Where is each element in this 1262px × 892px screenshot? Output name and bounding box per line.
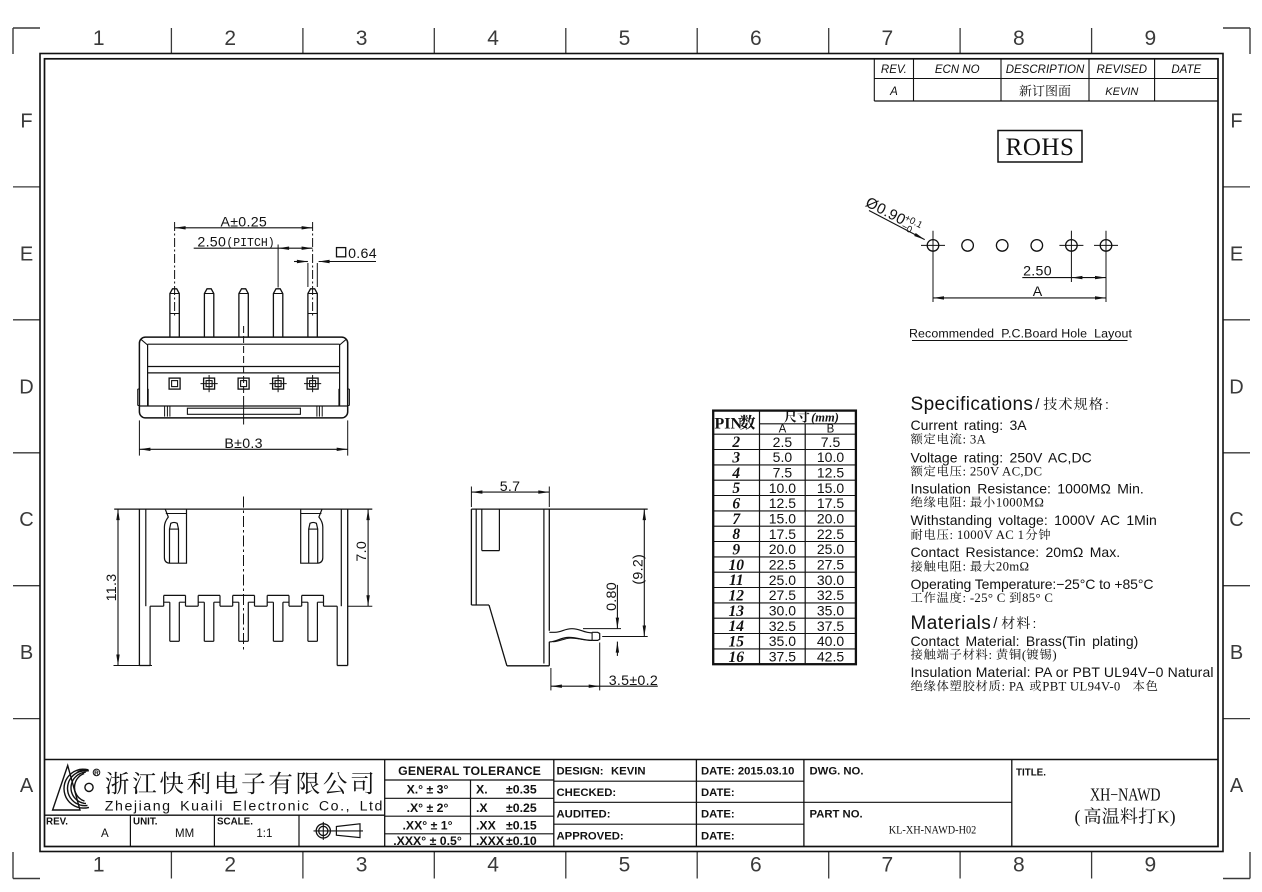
svg-text:1: 1 (93, 27, 105, 50)
svg-text:DATE: DATE (1171, 64, 1201, 76)
svg-text:±0.25: ±0.25 (506, 801, 537, 815)
svg-text:37.5: 37.5 (769, 649, 796, 665)
front view side tabs (138, 388, 140, 390)
svg-text:(mm): (mm) (811, 410, 839, 424)
dwg no / part no (804, 801, 1012, 803)
svg-text:7: 7 (882, 854, 894, 877)
svg-text:Withstanding voltage: 1000V A: Withstanding voltage: 1000V AC 1Min (911, 512, 1157, 528)
svg-text:SCALE.: SCALE. (217, 817, 253, 828)
front view bottom strip details (187, 408, 300, 414)
front view pins (170, 289, 179, 337)
svg-text::: : (963, 560, 967, 574)
svg-text:: 1000V AC 1: : 1000V AC 1 (950, 528, 1025, 542)
svg-text:22.5: 22.5 (817, 526, 844, 542)
title block grid (45, 759, 1219, 761)
svg-text:.X: .X (476, 801, 488, 815)
front view pin cavities (squares) (169, 378, 180, 389)
svg-text:22.5: 22.5 (769, 557, 796, 573)
bottom view left leg (149, 606, 151, 665)
svg-text:32.5: 32.5 (769, 618, 796, 634)
svg-text:.XX° ± 1°: .XX° ± 1° (402, 819, 452, 833)
svg-text:CHECKED:: CHECKED: (557, 787, 617, 799)
svg-text:±0.10: ±0.10 (506, 834, 537, 848)
svg-text:8: 8 (1013, 27, 1025, 50)
svg-text:: 3A: : 3A (963, 432, 987, 446)
svg-text:Materials: Materials (911, 613, 992, 634)
svg-text:25.0: 25.0 (769, 572, 796, 588)
svg-text:Voltage rating: 250V AC,DC: Voltage rating: 250V AC,DC (911, 450, 1092, 466)
bottom view right leg (336, 606, 338, 665)
svg-text:A: A (889, 86, 898, 98)
svg-text:K: K (1157, 808, 1170, 827)
svg-text:15.0: 15.0 (769, 511, 796, 527)
svg-text:10.0: 10.0 (817, 449, 844, 465)
svg-text:AUDITED:: AUDITED: (557, 809, 611, 821)
centerline pin 5 (312, 222, 314, 318)
bottom view slots (164, 509, 186, 563)
svg-text:Specifications: Specifications (911, 394, 1034, 415)
bottom view centerline (243, 497, 245, 653)
company logo (53, 766, 80, 811)
svg-text:Insulation Material: PA or PBT: Insulation Material: PA or PBT UL94V−0 N… (911, 664, 1214, 680)
svg-text:(: ( (1022, 648, 1027, 662)
svg-text:DWG. NO.: DWG. NO. (810, 766, 864, 778)
svg-text:D: D (19, 376, 33, 398)
projection symbol (316, 824, 330, 838)
svg-text:Operating Temperature:−25°C to: Operating Temperature:−25°C to +85°C (911, 576, 1154, 592)
svg-text:2.50: 2.50 (1023, 263, 1052, 279)
pcb hole layout (927, 240, 939, 252)
company name chinese (106, 772, 129, 795)
svg-text:3: 3 (356, 27, 368, 50)
svg-text:E: E (1230, 243, 1243, 265)
svg-text:2: 2 (224, 854, 236, 877)
svg-text:C: C (19, 509, 33, 531)
svg-text:1:1: 1:1 (256, 828, 272, 840)
svg-text:17.5: 17.5 (817, 495, 844, 511)
svg-text:R: R (94, 770, 99, 777)
side view body profile (471, 508, 647, 510)
svg-text::: : (989, 648, 993, 662)
svg-text:UNIT.: UNIT. (133, 817, 158, 828)
revision table (874, 100, 1218, 102)
svg-text::: : (1033, 616, 1037, 631)
svg-text:Current rating: 3A: Current rating: 3A (911, 417, 1028, 433)
svg-text:27.5: 27.5 (769, 587, 796, 603)
svg-text::: : (963, 496, 967, 510)
hole crosshairs (921, 244, 945, 246)
svg-text:REV.: REV. (46, 817, 68, 828)
registered trademark (93, 769, 100, 776)
svg-text:6: 6 (750, 27, 762, 50)
svg-text:30.0: 30.0 (769, 603, 796, 619)
svg-text:REVISED: REVISED (1097, 64, 1148, 76)
svg-text:25.0: 25.0 (817, 541, 844, 557)
side view pin (kinked) (549, 629, 592, 633)
svg-text:40.0: 40.0 (817, 633, 844, 649)
svg-text:E: E (20, 243, 33, 265)
svg-text:85° C: 85° C (1022, 591, 1053, 605)
svg-text:D: D (1229, 376, 1243, 398)
svg-text:Insulation Resistance: 1000MΩ: Insulation Resistance: 1000MΩ Min. (911, 480, 1144, 496)
svg-text:PART NO.: PART NO. (810, 809, 863, 821)
svg-text:APPROVED:: APPROVED: (557, 831, 624, 843)
svg-text:1: 1 (93, 854, 105, 877)
svg-text:X.° ± 3°: X.° ± 3° (407, 783, 449, 797)
svg-text:: 250V AC,DC: : 250V AC,DC (963, 465, 1043, 479)
svg-text:DATE:: DATE: (701, 787, 735, 799)
svg-text:0.64: 0.64 (348, 246, 377, 262)
svg-text:PIN: PIN (715, 415, 743, 432)
svg-text:A: A (1230, 775, 1244, 797)
svg-text:1000MΩ: 1000MΩ (996, 496, 1044, 510)
svg-text:7: 7 (882, 27, 894, 50)
svg-text:10.0: 10.0 (769, 480, 796, 496)
svg-text:DESCRIPTION: DESCRIPTION (1006, 64, 1085, 76)
svg-text:REV.: REV. (881, 64, 907, 76)
svg-text:KEVIN: KEVIN (611, 766, 646, 778)
svg-text:2.5: 2.5 (773, 434, 793, 450)
svg-text:Zhejiang Kuaili Electronic Co.: Zhejiang Kuaili Electronic Co., Ltd (105, 798, 384, 814)
svg-text:Contact Material: Brass(Tin pl: Contact Material: Brass(Tin plating) (911, 633, 1139, 649)
svg-text:B: B (20, 642, 33, 664)
svg-text:F: F (20, 111, 32, 133)
svg-text:7.5: 7.5 (821, 434, 841, 450)
ROHS mark (998, 131, 1082, 163)
svg-text:ROHS: ROHS (1006, 134, 1075, 161)
front view connector body (139, 337, 347, 418)
svg-text:9: 9 (1144, 854, 1156, 877)
svg-text:.X° ± 2°: .X° ± 2° (407, 801, 449, 815)
svg-text:: -25° C: : -25° C (963, 591, 1006, 605)
svg-text:20.0: 20.0 (817, 511, 844, 527)
svg-text:KL-XH-NAWD-H02: KL-XH-NAWD-H02 (889, 823, 977, 837)
svg-text:5.0: 5.0 (773, 449, 793, 465)
svg-text:KEVIN: KEVIN (1105, 86, 1138, 98)
svg-text:ECN NO: ECN NO (935, 64, 980, 76)
svg-text:12.5: 12.5 (769, 495, 796, 511)
svg-text:27.5: 27.5 (817, 557, 844, 573)
svg-text:): ) (1052, 648, 1057, 662)
svg-text:B: B (1230, 642, 1243, 664)
svg-text:: PA: : PA (1002, 679, 1026, 693)
bottom view body (114, 508, 372, 510)
svg-text:.XXX° ± 0.5°: .XXX° ± 0.5° (393, 834, 462, 848)
svg-text:X.: X. (476, 783, 488, 797)
column ticks and numbers (top/bottom) (170, 28, 172, 54)
svg-text:DATE: 2015.03.10: DATE: 2015.03.10 (701, 766, 794, 778)
svg-text:F: F (1230, 111, 1242, 133)
svg-text::: : (1105, 397, 1109, 412)
svg-text:(: ( (1075, 807, 1081, 827)
svg-text:DATE:: DATE: (701, 831, 735, 843)
svg-text:30.0: 30.0 (817, 572, 844, 588)
svg-text:2: 2 (224, 27, 236, 50)
svg-text:.XX: .XX (476, 819, 497, 833)
svg-text:GENERAL TOLERANCE: GENERAL TOLERANCE (398, 764, 541, 778)
svg-text:±0.15: ±0.15 (506, 819, 537, 833)
svg-text:): ) (1170, 807, 1176, 827)
svg-text:TITLE.: TITLE. (1016, 768, 1046, 779)
svg-text:15.0: 15.0 (817, 480, 844, 496)
svg-text:17.5: 17.5 (769, 526, 796, 542)
svg-text:±0.35: ±0.35 (506, 783, 537, 797)
pin count table (713, 411, 856, 665)
svg-text:A: A (101, 828, 109, 840)
svg-text:20mΩ: 20mΩ (996, 560, 1029, 574)
svg-text:6: 6 (750, 854, 762, 877)
drawing frame corner ticks (13, 27, 40, 29)
svg-text:12.5: 12.5 (817, 465, 844, 481)
svg-text:XH−NAWD: XH−NAWD (1090, 785, 1161, 805)
svg-text:5: 5 (619, 27, 631, 50)
svg-text:9: 9 (1144, 27, 1156, 50)
svg-text:37.5: 37.5 (817, 618, 844, 634)
svg-text:.XXX: .XXX (476, 834, 505, 848)
svg-text:Contact Resistance: 20mΩ Max.: Contact Resistance: 20mΩ Max. (911, 544, 1121, 560)
svg-text:MM: MM (175, 828, 194, 840)
svg-text:8: 8 (1013, 854, 1025, 877)
svg-text:7.5: 7.5 (773, 465, 793, 481)
svg-text:35.0: 35.0 (769, 633, 796, 649)
svg-text:C: C (1229, 509, 1243, 531)
centerline pin 3 dashed (243, 326, 245, 403)
svg-text:A: A (20, 775, 34, 797)
svg-text:42.5: 42.5 (817, 649, 844, 665)
row ticks and letters (left/right) (13, 186, 40, 188)
svg-text:11.3: 11.3 (104, 574, 120, 602)
svg-text:35.0: 35.0 (817, 603, 844, 619)
svg-text:20.0: 20.0 (769, 541, 796, 557)
svg-text:4: 4 (487, 854, 499, 877)
hole diameter leader (869, 211, 925, 240)
dimension square 0.64 (337, 248, 346, 257)
centerline pin 1 (174, 222, 176, 318)
svg-text:3: 3 (356, 854, 368, 877)
svg-text:DATE:: DATE: (701, 809, 735, 821)
svg-text:DESIGN:: DESIGN: (557, 766, 604, 778)
extension line pin 4 (277, 245, 279, 288)
svg-text:Recommended P.C.Board Hole L: Recommended P.C.Board Hole Layout (909, 327, 1132, 341)
design/date rows (554, 780, 804, 782)
svg-text:32.5: 32.5 (817, 587, 844, 603)
bottom view comb edge and pins (150, 605, 164, 607)
svg-text:4: 4 (487, 27, 499, 50)
svg-text:5: 5 (619, 854, 631, 877)
svg-text:16: 16 (729, 649, 745, 666)
svg-text:PBT UL94V-0: PBT UL94V-0 (1042, 679, 1120, 693)
